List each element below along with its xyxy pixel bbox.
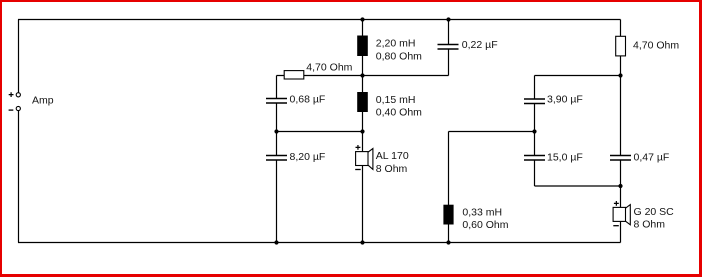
svg-text:8 Ohm: 8 Ohm (376, 163, 408, 175)
wire 3,90 uF upper lead (534, 76, 536, 100)
wire between 3,90 uF and 15,0 uF (534, 104, 536, 156)
svg-text:AL 170: AL 170 (376, 150, 409, 162)
svg-text:4,70 Ohm: 4,70 Ohm (306, 62, 352, 74)
wire bottom bus (18, 242, 621, 244)
wire shunt branch middle (between 0,68 and 8,20) (276, 103, 278, 156)
svg-text:15,0 µF: 15,0 µF (547, 151, 583, 163)
wire left from top bus to + terminal (18, 20, 20, 93)
speaker G 20 SC 8 Ohm (613, 201, 674, 231)
svg-text:3,90 µF: 3,90 µF (547, 94, 583, 106)
capacitor 3,90 uF (524, 94, 583, 106)
svg-text:0,60 Ohm: 0,60 Ohm (462, 219, 508, 231)
wire top bus (18, 19, 621, 21)
junction lower rail / 3,90 uF branch (532, 129, 536, 133)
svg-text:G 20 SC: G 20 SC (634, 206, 675, 218)
junction top bus / 0,22 uF branch (446, 17, 450, 21)
wire lower rail right (to cap loop) (449, 131, 535, 133)
junction midrail / tweeter branch (618, 73, 622, 77)
svg-text:8,20 µF: 8,20 µF (290, 151, 326, 163)
speaker AL 170 8 Ohm (355, 145, 409, 175)
wire cap loop bottom (535, 185, 621, 187)
wire 0,22 uF branch upper (448, 20, 450, 45)
junction lower rail / AL 170 branch (360, 129, 364, 133)
capacitor 0,22 uF (438, 39, 498, 51)
wire shunt branch upper (0,68 uF above) (276, 76, 278, 99)
svg-text:2,20 mH: 2,20 mH (376, 38, 416, 50)
svg-text:0,80 Ohm: 0,80 Ohm (376, 50, 422, 62)
inductor 0,15 mH 0,40 Ohm (357, 92, 422, 119)
svg-text:0,15 mH: 0,15 mH (376, 94, 416, 106)
junction bottom bus / AL 170 branch (360, 240, 364, 244)
inductor 2,20 mH 0,80 Ohm (357, 36, 422, 63)
svg-text:0,68 µF: 0,68 µF (290, 94, 326, 106)
amp - terminal (9, 106, 21, 110)
capacitor 15,0 uF (524, 151, 583, 163)
capacitor 0,47 uF (610, 151, 669, 163)
wire series branch (through 2,20 mH and 0,15 mH and AL 170) (362, 20, 364, 243)
svg-text:0,40 Ohm: 0,40 Ohm (376, 107, 422, 119)
junction cap loop bottom / tweeter branch (618, 184, 622, 188)
capacitor 0,68 uF (266, 94, 325, 106)
svg-text:0,47 µF: 0,47 µF (634, 151, 670, 163)
wire midrail right (cap loop top) (535, 75, 621, 77)
resistor 4,70 Ohm (series midrail) (284, 62, 352, 79)
wire midrail center (series node to 0,22 uF branch) (363, 75, 449, 77)
wire left from - terminal to bottom bus (18, 111, 20, 243)
junction bottom bus / shunt branch (274, 240, 278, 244)
wire tweeter branch lower (0,47 uF to G 20 SC) (620, 160, 622, 243)
svg-text:8 Ohm: 8 Ohm (634, 219, 666, 231)
capacitor 8,20 uF (266, 151, 325, 163)
junction top bus / series branch (360, 17, 364, 21)
resistor 4,70 Ohm (tweeter) (616, 36, 680, 56)
svg-text:0,33 mH: 0,33 mH (462, 207, 502, 219)
wire lower rail left (to AL 170 node) (277, 131, 363, 133)
wire shunt branch lower (below 8,20 uF) (276, 160, 278, 243)
svg-text:4,70 Ohm: 4,70 Ohm (633, 40, 679, 52)
wire below 15,0 uF (534, 160, 536, 186)
amp + terminal (9, 92, 21, 97)
inductor 0,33 mH 0,60 Ohm (443, 205, 508, 232)
wire midrail left (through R 4,70) (277, 75, 363, 77)
svg-text:0,22 µF: 0,22 µF (462, 39, 498, 51)
wire 0,22 uF branch lower (448, 49, 450, 76)
wire 0,33 mH branch (448, 132, 450, 243)
junction lower rail / shunt branch (274, 129, 278, 133)
svg-text:Amp: Amp (32, 94, 54, 106)
wire tweeter branch upper (through R 4,70 to 0,47 uF) (620, 20, 622, 156)
junction midrail / series branch (360, 73, 364, 77)
junction bottom bus / 0,33 mH branch (446, 240, 450, 244)
